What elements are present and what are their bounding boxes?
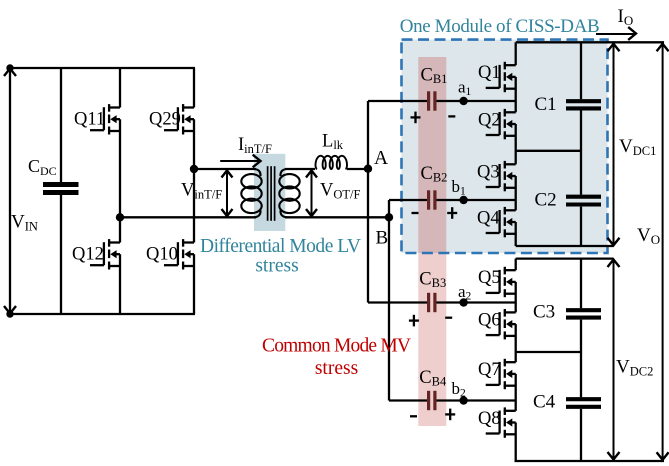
svg-text:Q29: Q29 (149, 110, 181, 130)
svg-text:A: A (374, 148, 388, 169)
svg-text:Q4: Q4 (477, 208, 500, 228)
svg-text:Q2: Q2 (478, 110, 501, 130)
svg-text:Q11: Q11 (74, 110, 105, 130)
svg-text:stress: stress (315, 358, 358, 379)
svg-text:stress: stress (255, 256, 298, 277)
svg-text:C3: C3 (533, 302, 555, 323)
svg-text:Q7: Q7 (478, 360, 501, 380)
svg-text:Q3: Q3 (477, 162, 500, 182)
svg-text:C2: C2 (535, 190, 557, 211)
svg-text:Q12: Q12 (72, 245, 104, 265)
svg-text:B: B (376, 227, 389, 248)
svg-text:One Module of CISS-DAB: One Module of CISS-DAB (400, 16, 600, 37)
svg-text:Q1: Q1 (478, 63, 501, 83)
svg-text:Q6: Q6 (478, 310, 501, 330)
svg-text:C1: C1 (535, 94, 557, 115)
svg-text:Differential Mode LV: Differential Mode LV (200, 236, 361, 257)
svg-text:Q8: Q8 (478, 409, 501, 429)
svg-text:Q5: Q5 (478, 268, 501, 288)
svg-text:C4: C4 (533, 392, 556, 413)
svg-text:Q10: Q10 (146, 245, 178, 265)
svg-text:Common Mode MV: Common Mode MV (262, 336, 411, 357)
